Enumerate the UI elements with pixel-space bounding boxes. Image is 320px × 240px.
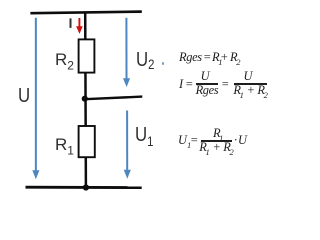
label U1 xyxy=(135,125,153,145)
arrow I (red, current) xyxy=(76,18,83,34)
dot after U2 xyxy=(162,62,165,65)
label R1 xyxy=(55,136,74,153)
node junction bottom xyxy=(83,184,89,190)
label U xyxy=(18,86,30,106)
resistor R2 xyxy=(79,39,95,72)
label R2 xyxy=(55,51,74,68)
label U2 xyxy=(136,50,154,70)
wire top rail xyxy=(30,12,141,14)
wire middle tap xyxy=(85,97,143,100)
resistor R1 xyxy=(79,126,95,157)
equation U1 = R1/(R1+R2) * U xyxy=(178,134,191,146)
node junction middle xyxy=(82,96,88,102)
wire vertical main xyxy=(84,12,87,188)
arrow U (left, blue) xyxy=(32,18,39,179)
wire bottom rail xyxy=(26,186,142,189)
arrow U2 (blue) xyxy=(123,18,130,87)
arrow U1 (blue) xyxy=(124,111,131,179)
equation Rges = R1 + R2 xyxy=(179,51,202,63)
equation I = U/Rges = U/(R1+R2) xyxy=(179,78,183,90)
